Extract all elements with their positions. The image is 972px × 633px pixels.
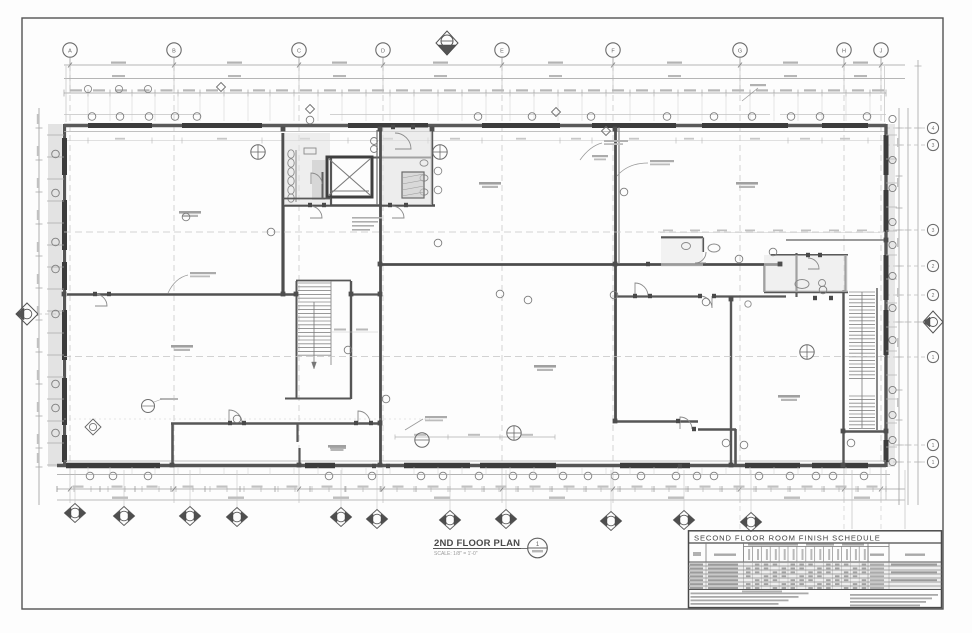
top wall window sill line — [64, 114, 886, 116]
svg-text:3: 3 — [932, 228, 935, 234]
svg-text:SCALE: 1/8" = 1'-0": SCALE: 1/8" = 1'-0" — [434, 551, 478, 557]
window diamond bottom at 190 — [180, 470, 201, 526]
dimension text smudges row1 — [111, 62, 868, 78]
grid line B — [173, 65, 175, 470]
room label upper right — [736, 182, 758, 188]
entry corner wall horizontal — [698, 428, 736, 431]
grid bubble right 2 — [927, 289, 938, 300]
center spine parallel line — [376, 130, 378, 205]
window jamb extension lines bottom — [88, 467, 870, 475]
vestibule room west — [171, 423, 299, 465]
center spine wall — [379, 130, 382, 466]
room label upper center — [479, 182, 501, 188]
svg-text:1: 1 — [932, 443, 935, 449]
svg-text:B: B — [172, 48, 176, 54]
room label small right — [592, 155, 608, 160]
note smudge right lower room — [580, 140, 628, 160]
corridor wall right section — [617, 295, 700, 297]
window diamond bottom at 124 — [114, 470, 135, 526]
room label upper left — [179, 211, 201, 217]
right stair treads upper — [849, 292, 875, 378]
left dimension ticks — [36, 114, 43, 467]
svg-text:2: 2 — [932, 264, 935, 270]
window jamb extension lines top — [88, 93, 870, 121]
grid bubble A — [63, 43, 77, 65]
svg-text:E: E — [500, 48, 504, 54]
grid line D — [382, 65, 384, 470]
svg-text:2: 2 — [932, 293, 935, 299]
wall junction blobs — [62, 127, 889, 468]
urinal fixture — [745, 301, 751, 307]
top wall inner line — [64, 131, 886, 133]
elevator cab X — [329, 159, 370, 195]
window diamond bottom at 751 — [741, 470, 762, 532]
bottom exterior wall — [57, 464, 886, 467]
grid bubble F — [606, 43, 620, 65]
small room top wall — [661, 236, 703, 238]
left exterior wall — [63, 124, 66, 467]
section diamond right — [923, 311, 943, 333]
door jamb blobs — [93, 125, 833, 468]
schedule table outer box — [689, 531, 942, 608]
grid bubble right 2.5 — [927, 260, 938, 271]
svg-text:D: D — [381, 48, 385, 54]
keynote circle at 807,352 — [800, 345, 814, 359]
window tags left column — [52, 150, 60, 437]
core upper wall segment — [283, 198, 331, 200]
dimension tails above schedule — [852, 470, 905, 529]
grid bubble right 3 — [927, 224, 938, 235]
small room east wall — [702, 238, 704, 253]
grid bubble B — [167, 43, 181, 65]
left wall gray band — [48, 124, 62, 467]
wall extension line right top — [884, 66, 886, 122]
bottom wall window segments — [66, 463, 868, 469]
dimension line top second — [64, 78, 905, 80]
dimension line top third — [64, 92, 886, 94]
keynote circle at 258,152 — [251, 145, 265, 159]
grid bubble C — [292, 43, 306, 65]
room label lower right — [778, 395, 800, 401]
bottom wall inner line — [64, 460, 886, 462]
svg-text:A: A — [68, 48, 72, 54]
grid line A — [69, 65, 71, 470]
svg-text:1: 1 — [932, 355, 935, 361]
dimension line bottom first — [57, 474, 890, 476]
left wall hatch ticks — [47, 135, 64, 465]
elevator lobby wall — [330, 157, 332, 205]
interior dimension line center room — [395, 434, 555, 440]
sink counter west core — [304, 148, 316, 154]
door arc room left — [95, 294, 107, 306]
right stair rail — [861, 292, 863, 428]
east core top wall — [372, 157, 432, 159]
window diamond bottom at 506 — [496, 470, 517, 529]
grid bubble G — [733, 43, 747, 65]
dimension line left vertical — [38, 108, 40, 505]
room label vestibule — [328, 445, 346, 451]
vestibule door arc west — [229, 410, 242, 423]
keynote circle at 440,152 — [433, 145, 447, 159]
svg-text:2ND FLOOR PLAN: 2ND FLOOR PLAN — [434, 538, 520, 549]
corridor wall left section — [67, 293, 296, 296]
grid bubble right 1.2 — [927, 439, 938, 450]
right toilet room bottom wall — [764, 291, 848, 293]
tag circle with leader lower left — [142, 398, 179, 413]
mid spine parallel line — [618, 127, 620, 264]
tag circles wall pair — [371, 138, 378, 153]
grid line H — [843, 65, 845, 470]
elevator shaft — [327, 157, 372, 197]
small room gray wash — [661, 238, 703, 267]
note smudge center room leader — [405, 416, 447, 430]
east room door arc — [395, 133, 411, 149]
svg-text:1: 1 — [932, 460, 935, 466]
section marker diamond top — [436, 31, 458, 55]
vestibule room dim text — [330, 447, 346, 449]
left wall window segments — [62, 138, 67, 462]
dimension line bottom second — [57, 488, 905, 490]
west core door arc — [311, 173, 322, 184]
right stair shaft — [876, 288, 878, 430]
room label lower center — [534, 365, 556, 371]
left stair treads — [298, 281, 331, 365]
window tags top row — [88, 113, 871, 121]
grid bubble right 3.5 — [927, 139, 938, 150]
toilet fixture room A — [682, 243, 721, 264]
note smudge left room leader — [168, 272, 216, 293]
bottom dimension text smudges — [73, 486, 878, 499]
grid line G — [739, 65, 741, 470]
centerline horizontal upper — [64, 231, 886, 233]
corridor wall center jog — [351, 293, 381, 295]
toilet fixtures east core — [420, 160, 442, 195]
keynote circle at 514,433 — [507, 426, 521, 440]
toilet room divider wall — [764, 266, 766, 292]
right toilets gray wash — [764, 255, 848, 292]
core door arc west — [310, 206, 322, 218]
grid bubble E — [495, 43, 509, 65]
grid line C — [298, 65, 300, 470]
door arc entry — [680, 417, 692, 429]
right rooms top wall — [786, 239, 886, 241]
plan title underline — [433, 548, 521, 550]
right grid dash leaders — [886, 128, 926, 462]
left stair arrow — [312, 302, 317, 369]
door arc corridor right — [700, 296, 712, 308]
right stair treads lower — [849, 396, 875, 428]
keynote circle lower center — [415, 433, 429, 447]
door arc corridor center — [635, 283, 648, 296]
dimension lines right vertical — [899, 60, 918, 505]
diamond tag at 556,112 — [552, 108, 561, 117]
door tags interior — [182, 116, 855, 449]
vestibule top wall right — [616, 420, 698, 422]
window diamond bottom at 377 — [367, 470, 388, 529]
core gray wash east — [382, 127, 432, 205]
grid bubble D — [376, 43, 390, 65]
plan title leader line — [521, 548, 528, 550]
window diamond bottom at 75 — [65, 470, 86, 523]
window tags upper row left — [84, 85, 151, 92]
core door arc east — [392, 206, 404, 218]
dimension ticks row1 — [68, 63, 883, 94]
vestibule room east — [299, 424, 381, 466]
elevator note text — [352, 217, 382, 231]
interior dimension marks right rooms — [660, 230, 880, 233]
note smudge right room — [617, 160, 674, 176]
right dimension ticks — [896, 66, 922, 462]
right rooms upper wall — [771, 254, 848, 256]
window diamond bottom at 684 — [674, 470, 695, 530]
west core partition wall — [322, 172, 324, 199]
window diamond bottom at 341 — [331, 470, 352, 527]
schedule header band — [689, 543, 942, 590]
right rooms partition — [795, 253, 797, 297]
diamond tag at 310,109 — [306, 105, 315, 114]
janitor closet hatched — [402, 172, 424, 198]
window diamond bottom at 611 — [601, 470, 622, 531]
grid bubble J — [874, 43, 888, 65]
section diamond left — [16, 303, 64, 325]
right wall gray band — [888, 124, 895, 467]
dimension ticks row3 dense — [64, 89, 886, 96]
diagonal leader top right — [742, 84, 766, 101]
entry corner wall vertical — [734, 429, 737, 465]
interior dim string below top wall — [67, 138, 884, 144]
schedule data rows — [689, 563, 942, 590]
grid line tails bottom right — [740, 470, 881, 530]
core bottom wall — [283, 204, 435, 207]
lower right room wall — [730, 299, 732, 465]
plan title bubble — [528, 538, 548, 558]
core right wall — [431, 127, 433, 206]
bottom dimension ticks — [57, 470, 886, 503]
wall extension line left top — [65, 66, 67, 122]
mid wall right of center — [380, 263, 780, 266]
vestibule door arc east — [358, 411, 370, 423]
right exterior wall — [884, 124, 887, 467]
room label lower left — [171, 345, 193, 351]
grid bubble H — [837, 43, 851, 65]
centerline dotted lower left — [64, 418, 430, 420]
window diamond tag left lower — [85, 419, 101, 435]
top wall window segments — [88, 123, 868, 128]
svg-text:J: J — [880, 48, 883, 54]
schedule footer notes — [691, 591, 939, 607]
right wall window segments — [884, 135, 889, 462]
door tags bottom row — [86, 472, 868, 480]
dimension line bottom third — [57, 499, 905, 501]
window diamond bottom at 450 — [440, 470, 461, 530]
grid line F — [612, 65, 614, 470]
stair east wall right — [842, 290, 844, 465]
svg-text:C: C — [297, 48, 301, 54]
right stair bottom wall — [843, 430, 886, 432]
diamond tag at 606,131 — [602, 127, 611, 136]
toilet fixtures west core — [288, 150, 296, 202]
grid bubble right 1.5 — [927, 351, 938, 362]
svg-text:H: H — [842, 48, 846, 54]
schedule title row — [689, 534, 942, 544]
top exterior wall — [64, 124, 886, 128]
right wall hatch ticks — [886, 135, 897, 447]
core left wall — [281, 133, 284, 296]
diamond tag at 221,87 — [217, 83, 226, 92]
grid line E — [501, 65, 503, 470]
mid vertical wall F line — [614, 127, 617, 421]
svg-text:SECOND FLOOR ROOM FINISH SCHED: SECOND FLOOR ROOM FINISH SCHEDULE — [694, 534, 881, 543]
svg-text:G: G — [738, 48, 742, 54]
svg-text:F: F — [611, 48, 615, 54]
window tags right column — [889, 115, 896, 465]
toilet fixture room B — [795, 258, 826, 289]
dimension line top overall — [64, 64, 905, 66]
core gray wash west — [284, 133, 330, 205]
grid bubble right 4 — [927, 122, 938, 133]
corridor dim smudges near stair — [330, 329, 378, 333]
toilet partition wall — [844, 255, 846, 292]
grid line J — [880, 65, 882, 470]
svg-text:3: 3 — [932, 143, 935, 149]
grid bubble right 1 — [927, 456, 938, 467]
svg-text:4: 4 — [932, 126, 935, 132]
centerline horizontal lower — [64, 356, 886, 358]
left stair shaft — [285, 281, 351, 400]
window diamond bottom at 237 — [227, 470, 248, 527]
svg-text:1: 1 — [536, 542, 540, 548]
elevator pit walls gray — [312, 160, 325, 200]
